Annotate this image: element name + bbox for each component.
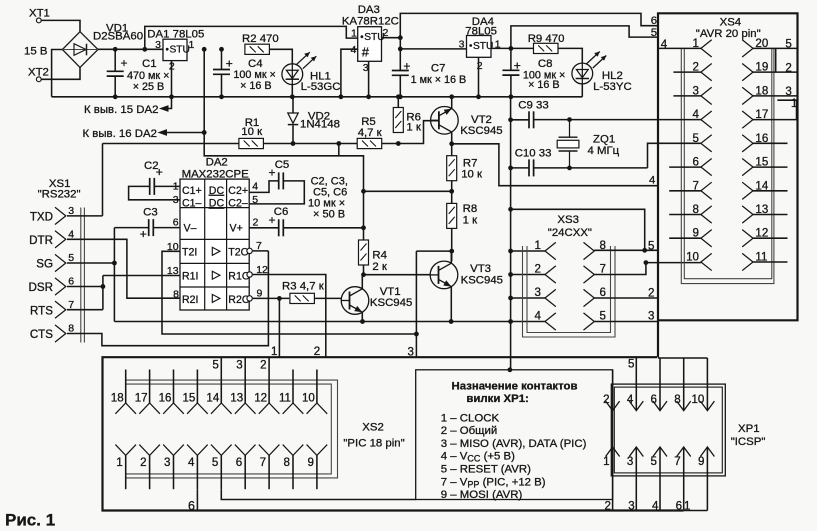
XP1 pin 3 arrow — [629, 447, 643, 457]
XS2 pin12 stem — [268, 370, 270, 404]
XS2 contact 11 — [283, 403, 304, 414]
wire C4 bottom — [221, 74, 223, 97]
svg-text:2: 2 — [140, 456, 146, 469]
wire +15V to DA3 pin1 — [145, 26, 358, 49]
svg-text:× 25 В: × 25 В — [133, 81, 165, 93]
connector XP1 box — [611, 384, 725, 476]
capacitor C3 — [149, 219, 154, 236]
svg-text:3: 3 — [236, 359, 242, 372]
svg-text:вилки XP1:: вилки XP1: — [466, 393, 528, 405]
svg-text:3: 3 — [459, 39, 465, 51]
svg-text:6: 6 — [651, 393, 657, 406]
svg-text:VT3: VT3 — [470, 263, 491, 275]
XS2 contact 3 — [163, 445, 184, 456]
wire to VT3 base — [364, 274, 431, 276]
wire DSR RTS riser — [102, 276, 104, 310]
XP1 pin10 stem — [706, 358, 708, 411]
XS4 stub pin11 — [753, 261, 788, 263]
svg-text:1: 1 — [189, 39, 195, 51]
XS2 pin4 net6 wire — [196, 489, 198, 510]
svg-text:3: 3 — [535, 286, 541, 299]
junction pin8 — [642, 248, 647, 253]
svg-text:2 к: 2 к — [372, 261, 387, 273]
svg-text:1: 1 — [535, 239, 541, 252]
svg-text:× 50 В: × 50 В — [313, 208, 345, 220]
DA2 inverter output circle — [247, 296, 252, 301]
DA2 buffer triangle — [212, 294, 220, 302]
svg-text:T2O: T2O — [228, 247, 249, 259]
XS2 pin5 wire to XP1 — [221, 489, 415, 499]
XS4 contact 2 — [701, 64, 712, 81]
capacitor C10 — [529, 159, 534, 176]
svg-text:3 – MISO (AVR), DATA (PIC): 3 – MISO (AVR), DATA (PIC) — [441, 438, 587, 450]
capacitor C6 — [279, 219, 284, 236]
wire HL2 to 0V — [581, 84, 583, 97]
wire R1O net2 — [252, 275, 325, 358]
svg-text:12: 12 — [254, 391, 267, 404]
capacitor C4 — [213, 70, 230, 75]
svg-text:10: 10 — [691, 393, 704, 406]
svg-text:XT1: XT1 — [29, 8, 50, 20]
svg-text:1 мк × 16 В: 1 мк × 16 В — [411, 74, 467, 86]
table rows — [441, 412, 587, 501]
table box XP1 pin functions — [416, 370, 613, 500]
resistor R2 — [245, 44, 270, 54]
XS4 contact 14 — [742, 182, 753, 199]
svg-text:KA78R12C: KA78R12C — [342, 16, 399, 28]
XS2 contact 8 — [283, 445, 304, 456]
svg-text:V–: V– — [184, 223, 197, 235]
XP1 pin 5 arrow — [653, 447, 667, 457]
wire DA3 pin3 to 0V — [368, 61, 370, 97]
XS2 pin10 stem — [316, 370, 318, 404]
svg-text:"ICSP": "ICSP" — [731, 436, 766, 448]
regulator DA4 — [467, 36, 494, 58]
wire SG — [67, 262, 114, 264]
XS3 contact 1 — [545, 242, 556, 259]
XP1 pin6 stem — [659, 358, 661, 411]
junction +5V branch — [361, 189, 366, 194]
XS2 pin7 stem — [268, 455, 270, 489]
XS4 contact 5 — [701, 135, 712, 152]
wire to R1I pin13 — [103, 275, 180, 277]
svg-text:DA2: DA2 — [206, 156, 228, 168]
XP1 pin 6 arrow — [653, 401, 667, 411]
XS4 contact 10 — [701, 253, 712, 270]
wire R6 top — [397, 97, 399, 108]
XS3 socket body — [523, 246, 616, 337]
svg-text:4: 4 — [351, 44, 357, 56]
svg-text:15 В: 15 В — [24, 46, 47, 58]
svg-text:4: 4 — [661, 38, 668, 51]
wire XT1 to bridge top — [41, 20, 80, 32]
XS2 pin1 stem — [125, 455, 127, 489]
svg-text:4,7 к: 4,7 к — [358, 127, 383, 139]
wire net3 down — [415, 334, 417, 357]
XS4 stub pin7 — [669, 190, 701, 192]
note capacitor values — [308, 175, 348, 220]
junction VT3 collector — [449, 249, 454, 254]
XS2 contact 13 — [235, 403, 256, 414]
svg-text:1: 1 — [271, 345, 277, 358]
svg-text:C1–: C1– — [182, 198, 202, 210]
wire RTS — [67, 309, 103, 311]
XP1 pin 1 arrow — [606, 447, 620, 457]
svg-text:XS3: XS3 — [557, 214, 579, 226]
XS2 contact 14 — [211, 403, 232, 414]
wire DA4 pin2 to 0V — [478, 57, 480, 97]
svg-text:2: 2 — [648, 287, 654, 300]
svg-text:6: 6 — [236, 456, 242, 469]
wire bridge left to 0V rail — [52, 50, 63, 97]
junction VD2 bottom — [291, 141, 296, 146]
svg-text:T2I: T2I — [182, 247, 197, 259]
svg-text:R2I: R2I — [182, 294, 199, 306]
DA2 pin numbers — [167, 181, 268, 301]
XP1 pin2 stem — [612, 370, 614, 411]
XS2 contact 2 — [139, 445, 160, 456]
svg-text:HL2: HL2 — [602, 70, 623, 82]
svg-text:2: 2 — [785, 62, 791, 75]
svg-text:ZQ1: ZQ1 — [593, 134, 615, 146]
wire VD2 top — [292, 97, 294, 113]
wire 0V common line — [114, 321, 510, 323]
XP1 pin 9 arrow — [700, 447, 714, 457]
svg-text:TXD: TXD — [30, 211, 53, 224]
svg-text:3: 3 — [628, 500, 634, 513]
svg-text:4 МГц: 4 МГц — [588, 145, 620, 157]
svg-text:R2 470: R2 470 — [242, 33, 279, 45]
DA2 inverter output circle — [247, 272, 252, 277]
svg-text:"24CXX": "24CXX" — [548, 227, 592, 239]
wire C8 bottom — [510, 75, 512, 97]
wire +5V riser and distribution — [204, 49, 363, 240]
svg-text:Рис. 1: Рис. 1 — [5, 511, 55, 530]
svg-text:5: 5 — [651, 27, 657, 39]
svg-text:3: 3 — [164, 456, 170, 469]
junction R7 R8 +5V — [449, 189, 454, 194]
svg-text:DA3: DA3 — [358, 4, 380, 16]
svg-text:1: 1 — [351, 28, 357, 40]
junction R4 VT3 base — [361, 272, 366, 277]
svg-text:DTR: DTR — [29, 234, 53, 247]
wire DATA riser — [415, 251, 417, 334]
svg-text:6: 6 — [651, 15, 657, 27]
XP1 pin 7 arrow — [677, 447, 691, 457]
svg-text:4: 4 — [649, 175, 655, 187]
XP1 pin1 stem — [612, 447, 614, 511]
XS2 pin17 stem — [149, 370, 151, 404]
XS2 contact 10 — [307, 403, 328, 414]
XS4 contact 18 — [742, 87, 753, 104]
transistor VT1 — [341, 287, 369, 315]
wire +5V to R7R8 — [364, 190, 452, 192]
XP1 pin 8 arrow — [677, 401, 691, 411]
svg-text:STU: STU — [473, 41, 493, 52]
svg-text:11: 11 — [279, 391, 291, 404]
XS2 contact 9 — [307, 445, 328, 456]
XS4 contact 6 — [701, 158, 712, 175]
svg-text:5: 5 — [628, 358, 634, 371]
wire +rail bridge to DA1 — [98, 48, 163, 50]
wire +5V net5 to XS4 — [511, 26, 658, 49]
wire XP1 ground bus — [658, 357, 707, 359]
junction 0V XS3 pin3 — [508, 296, 513, 301]
XS1 contact 5 SG — [55, 254, 66, 271]
wire TXD to R1 — [103, 143, 240, 145]
wire R2 to HL1 — [270, 49, 293, 63]
XS4 contact 16 — [742, 135, 753, 152]
DA2 cell labels — [182, 185, 250, 306]
svg-text:4: 4 — [252, 181, 258, 193]
XS1 contact 3 TXD — [55, 207, 66, 224]
svg-text:15: 15 — [182, 391, 195, 404]
wire C2 to DA2 pin3 — [129, 186, 180, 199]
wire R4 bottom — [363, 265, 365, 275]
LED HL1 — [282, 52, 316, 84]
XS4 contact 13 — [742, 206, 753, 223]
XS2 contact 4 — [187, 445, 208, 456]
svg-text:R9 470: R9 470 — [528, 33, 565, 45]
svg-text:XS2: XS2 — [362, 422, 384, 434]
wire +5V to DA2 pin16 — [167, 132, 204, 134]
wire T2O out — [252, 250, 268, 252]
resistor R9 — [534, 43, 559, 53]
XS2 contact 5 — [211, 445, 232, 456]
XS3 contact 7 — [584, 266, 595, 283]
junction net1 — [277, 296, 282, 301]
XS2 socket body — [126, 380, 338, 478]
svg-text:7: 7 — [674, 455, 680, 468]
svg-text:C8: C8 — [538, 58, 553, 70]
resistor R7 — [447, 156, 457, 181]
wire C6 to +5V — [283, 227, 363, 229]
svg-text:XP1: XP1 — [738, 423, 760, 435]
XS1 contact 6 DSR — [55, 278, 66, 295]
terminal XT2 — [36, 77, 41, 82]
terminal XT1 — [36, 18, 41, 23]
svg-text:D2SBA60: D2SBA60 — [93, 30, 143, 42]
resistor R3 — [290, 293, 315, 303]
junction C8 0V — [509, 94, 514, 99]
wire XS3 pin1 — [511, 250, 545, 252]
XP1 pin4 stem — [635, 357, 637, 410]
XS2 contact 6 — [235, 445, 256, 456]
junction DSR RTS — [101, 284, 106, 289]
wire R2O to R3 — [252, 297, 289, 299]
junction 0V table — [508, 367, 513, 372]
wire C9 left — [511, 119, 529, 121]
junction +12V — [398, 35, 403, 40]
wire XS4 pins 20 19 join — [775, 48, 777, 72]
wire XS3 pin5 net3 — [594, 321, 658, 323]
wire ZQ1 C10 to XS4 pin5 — [648, 143, 701, 168]
svg-text:5: 5 — [600, 309, 606, 322]
wire VT1 emitter — [361, 312, 363, 321]
junction DA3 pin4 — [339, 94, 344, 99]
junction C1 bottom — [113, 94, 118, 99]
svg-text:C9 33: C9 33 — [518, 100, 548, 112]
svg-text:5: 5 — [648, 240, 654, 253]
svg-text:× 16 В: × 16 В — [240, 80, 272, 92]
svg-text:78L05: 78L05 — [465, 26, 497, 38]
XS3 contact 2 — [545, 266, 556, 283]
svg-text:2: 2 — [253, 216, 259, 228]
junction ZQ1 top — [567, 117, 572, 122]
XS4 contact 12 — [742, 230, 753, 247]
svg-text:R8: R8 — [463, 203, 478, 215]
svg-text:C2–: C2– — [228, 198, 248, 210]
junction DA4 input — [398, 47, 403, 52]
wire R3 to VT1 base — [315, 297, 342, 299]
XS4 stub pin3 — [673, 95, 701, 97]
wire DA2 pin2 to C6 — [249, 227, 279, 229]
svg-text:1: 1 — [791, 97, 797, 110]
svg-text:CTS: CTS — [30, 328, 53, 341]
junction VT2 collector — [449, 141, 454, 146]
svg-text:10 к: 10 к — [241, 126, 263, 138]
svg-text:+: + — [226, 56, 233, 70]
XS4 stub pin13 — [753, 214, 788, 216]
XS4 contact 4 — [701, 111, 712, 128]
XS2 pin14 stem — [220, 370, 222, 404]
XS4 contact 7 — [701, 182, 712, 199]
wire XS4 pin18 — [753, 95, 798, 97]
junction DATA — [414, 332, 419, 337]
svg-text:6: 6 — [173, 216, 179, 228]
wire C10 left — [511, 167, 529, 169]
wire XS4 pin1 net4 — [658, 47, 701, 49]
svg-text:"PIC 18 pin": "PIC 18 pin" — [343, 438, 404, 450]
XS4 stub pin14 — [753, 190, 788, 192]
wire DA1 pin2 down — [169, 61, 172, 109]
svg-text:DC: DC — [209, 185, 225, 197]
junction 0V feed — [508, 207, 513, 212]
svg-text:17: 17 — [135, 391, 148, 404]
XS4 stub pin8 — [669, 214, 701, 216]
wire R9 to HL2 — [558, 48, 582, 63]
regulator DA1 — [163, 39, 190, 60]
svg-text:5: 5 — [212, 456, 218, 469]
svg-text:R1I: R1I — [182, 270, 199, 282]
svg-text:4: 4 — [652, 500, 659, 513]
wire VT2 collector — [451, 132, 453, 144]
XS3 contact 6 — [584, 289, 595, 306]
wire XS3 pin8 net5 — [594, 249, 658, 251]
svg-text:× 16 В: × 16 В — [528, 79, 560, 91]
junction C7 0V — [398, 94, 403, 99]
XP1 pin 2 arrow — [606, 401, 620, 411]
svg-text:C7: C7 — [431, 63, 446, 75]
wire R8 to VT3 collector — [451, 228, 453, 261]
LED HL2 — [572, 52, 606, 84]
wire XS4 pin19 — [753, 71, 798, 73]
XS2 pin5 stem — [220, 455, 222, 489]
svg-text:2: 2 — [314, 345, 320, 358]
XP1 pin3 stem — [635, 447, 637, 511]
svg-text:DSR: DSR — [29, 281, 53, 294]
junction +5V AVR — [509, 46, 514, 51]
svg-text:2: 2 — [260, 359, 266, 372]
wire DTR to R2I — [67, 239, 180, 298]
XS4 contact 11 — [742, 253, 753, 270]
junction DA3 pin3 — [366, 94, 371, 99]
resistor R8 — [447, 203, 457, 228]
svg-text:13: 13 — [230, 391, 243, 404]
svg-text:7 – VPP (PIC, +12 В): 7 – VPP (PIC, +12 В) — [441, 476, 546, 489]
XS2 contact 1 — [115, 445, 136, 456]
wire CTS to T2O — [67, 251, 268, 346]
XS2 contact 16 — [163, 403, 184, 414]
connector XS4 box — [658, 13, 798, 357]
XS2 pin11 stem — [292, 370, 294, 404]
XS4 contact 1 — [701, 40, 712, 57]
svg-text:6: 6 — [676, 500, 682, 513]
svg-text:C2: C2 — [144, 160, 159, 172]
svg-text:16: 16 — [159, 391, 172, 404]
capacitor C9 — [529, 111, 534, 128]
junction C1 top — [113, 47, 118, 52]
junction 0V XS3 pin1 — [508, 249, 513, 254]
junction C4 top — [219, 47, 224, 52]
wire +12V net6 to XS4 — [400, 13, 658, 37]
XS2 contact 7 — [259, 445, 280, 456]
wire DA2 pin4 to C5 — [249, 181, 279, 193]
wire +5V to XS3 pin8 — [511, 209, 645, 250]
svg-text:1 к: 1 к — [463, 215, 478, 227]
svg-text:6: 6 — [600, 286, 606, 299]
svg-text:2 – Общий: 2 – Общий — [441, 425, 497, 437]
wire R7 to R8 — [451, 181, 453, 204]
XS2 contact 12 — [259, 403, 280, 414]
XP1 pin 4 arrow — [629, 401, 643, 411]
XS2 pin3 stem — [173, 455, 175, 489]
svg-text:14: 14 — [206, 391, 219, 404]
capacitor C8 — [502, 70, 519, 75]
wire TXD riser — [102, 144, 104, 216]
wire 0V rail — [52, 96, 583, 98]
wire C10 to riser — [534, 167, 648, 169]
XS2 pin2 stem — [149, 455, 151, 489]
bridge rectifier VD1 — [62, 32, 98, 68]
wire VT2 emitter to 0V — [451, 97, 453, 109]
svg-text:KSC945: KSC945 — [461, 275, 503, 287]
svg-text:+: + — [121, 56, 128, 70]
wire pullup branch — [338, 144, 340, 156]
wire net1 down — [278, 298, 280, 357]
wire C7 top — [399, 38, 401, 71]
transistor VT2 — [431, 107, 459, 135]
junction +5V rail — [202, 47, 207, 52]
wire to DA4 pin3 — [400, 48, 466, 50]
capacitor C5 — [279, 172, 284, 189]
svg-text:+: + — [403, 59, 410, 73]
junction VT1 emitter 0V — [360, 319, 365, 324]
svg-text:9: 9 — [698, 455, 704, 468]
XS2 pin8 stem — [292, 455, 294, 489]
svg-text:XT2: XT2 — [28, 67, 49, 79]
svg-text:C5: C5 — [275, 159, 290, 171]
svg-text:2: 2 — [477, 60, 483, 72]
XS1 contact 7 RTS — [55, 301, 66, 318]
svg-text:+: + — [140, 227, 147, 241]
XS4 stub pin6 — [669, 166, 701, 168]
wire XS4 pin20 — [753, 47, 798, 49]
DA2 DC/DC symbol — [209, 185, 225, 210]
svg-text:9: 9 — [257, 287, 263, 299]
junction 0V XS3 pin4 — [508, 319, 513, 324]
svg-text:3: 3 — [627, 455, 633, 468]
